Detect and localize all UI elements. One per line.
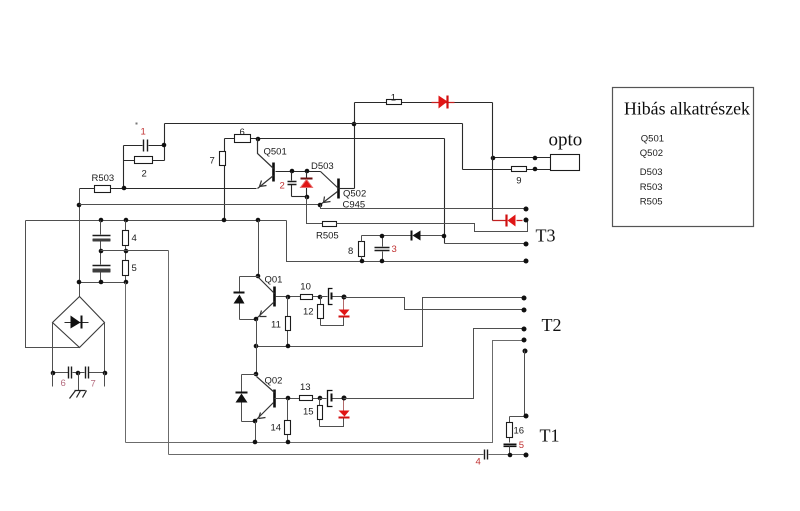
list R503 (640, 182, 663, 193)
parts list box (613, 88, 754, 227)
node dot T3 pin3 (524, 242, 529, 247)
node dot y205 (77, 203, 82, 208)
title Hibas alkatreszek (624, 99, 750, 119)
svg-text:16: 16 (514, 425, 525, 436)
node dot Q01 emitter (254, 317, 259, 322)
opto coupler box (551, 155, 580, 171)
labels 6 and 7 (pink) (61, 378, 96, 390)
capacitor 2 (288, 172, 297, 197)
svg-text:Q01: Q01 (265, 275, 283, 286)
wire y=282.3 bottom caps row (80, 282, 126, 284)
capacitor 1 (top-left) plates (124, 140, 165, 152)
svg-text:T3: T3 (536, 226, 556, 246)
svg-text:2: 2 (142, 169, 147, 180)
wire Q502 base to x354 (339, 188, 355, 190)
resistor 15 (318, 399, 323, 427)
label 12 (303, 307, 314, 318)
wire T2 pin4 via x=492.4 (126, 341, 525, 443)
wire x=462 down (462, 124, 464, 170)
node dot cap1 right (162, 143, 167, 148)
resistor 14 (285, 399, 291, 443)
wire Q02 base (275, 398, 300, 400)
wire y=250.9 to x=169 (101, 250, 169, 252)
resistor 8 (359, 236, 365, 262)
wire right leg x=164.2 (164, 124, 166, 161)
node dot R13/R15 (318, 396, 323, 401)
wire left frame x=25.4 (26, 221, 80, 348)
label 4 (red) (476, 457, 481, 468)
svg-text:4: 4 (132, 233, 137, 244)
diode Q01 clamp (234, 277, 259, 320)
capacitor C (Q01 output) (321, 289, 344, 305)
wire y=205 long horizontal (80, 204, 321, 206)
node dot diode/x444 (442, 234, 447, 239)
diode T3 (red, pointing left) (493, 215, 523, 227)
node dot D503 bottom (305, 195, 310, 200)
svg-text:D503: D503 (311, 161, 334, 172)
svg-text:opto: opto (549, 130, 583, 151)
svg-text:8: 8 (348, 246, 353, 257)
list Q502 (640, 148, 663, 159)
node dot Q02 collector (254, 372, 259, 377)
svg-text:Q501: Q501 (641, 134, 664, 145)
label 1 (resistor 1) (391, 92, 396, 103)
svg-text:6: 6 (61, 378, 66, 389)
node dot T2 pin4 (522, 338, 527, 343)
label 6 (240, 127, 245, 138)
diode Z1 (red, down) (339, 297, 350, 317)
wire bridge right leg (104, 323, 106, 373)
node dot base/R14 (286, 396, 291, 401)
capacitor 5 (T1) (504, 445, 517, 455)
ground (70, 373, 87, 399)
resistor 12 (318, 297, 324, 326)
svg-text:5: 5 (519, 440, 524, 451)
label 5 (132, 263, 137, 274)
node dot Q01 collector (256, 274, 261, 279)
label T3 (536, 226, 556, 246)
label T1 (540, 426, 560, 446)
wire y=235.7 (res8/cap3/diode rail) (362, 235, 444, 237)
wire Q01 base (276, 296, 301, 298)
resistor 9 (512, 167, 527, 172)
resistor 5 (123, 251, 129, 283)
node dot T3 pin4 (524, 259, 529, 264)
wire bridge left leg (52, 323, 54, 373)
node dots y=346 (254, 344, 291, 349)
svg-text:1: 1 (141, 126, 146, 137)
node dots caps 6/7 row (51, 371, 108, 376)
svg-text:Q501: Q501 (264, 147, 287, 158)
list R505 (640, 197, 663, 208)
node dot R10/R12 (318, 295, 323, 300)
label Q502 (343, 188, 366, 199)
label 2 (142, 169, 147, 180)
stubs below caps row (53, 373, 105, 387)
node dot T2 pin3 (522, 327, 527, 332)
svg-text:7: 7 (210, 156, 215, 167)
capacitor col (left) lower electrolytic (93, 251, 111, 283)
node dots y220 (99, 218, 261, 223)
label Q501 (264, 147, 287, 158)
svg-text:Hibás alkatrészek: Hibás alkatrészek (624, 99, 750, 119)
resistor 10 (301, 295, 321, 300)
bridge rectifier diamond (53, 297, 105, 348)
transistor Q01 (257, 278, 275, 319)
node dot T1 pin (524, 453, 529, 458)
node dot T3 pin2 (524, 218, 529, 223)
resistor 13 (300, 396, 320, 401)
node dot Q02 emitter (253, 419, 258, 424)
node dot cap right (342, 295, 347, 300)
wire left leg x=123.2 (123, 146, 125, 189)
wire Q01 emitter bottom (240, 319, 257, 321)
capacitor 6 (53, 367, 79, 379)
svg-text:11: 11 (271, 319, 281, 330)
wire R15 bottom to diode (320, 419, 344, 427)
label 10 (300, 281, 311, 292)
node dot R503/cap leg (122, 186, 127, 191)
wire resistor 7 column x=224 (224, 139, 226, 221)
bridge inner diode (65, 316, 89, 329)
label 16 (514, 425, 525, 436)
svg-text:14: 14 (271, 422, 282, 433)
node dot T2 pin5 (523, 349, 528, 354)
node dots mid caps row y=250.9 (99, 249, 129, 254)
svg-text:3: 3 (392, 244, 397, 255)
label 3 (red) (392, 244, 397, 255)
resistor R505 (323, 221, 528, 232)
capacitor col (left) upper electrolytic (93, 221, 111, 251)
wire to T2 pin2 (344, 298, 524, 310)
node dot base/cap2 (290, 169, 295, 174)
node dots y=442.4 (253, 440, 291, 445)
node dot T3 pin1 (524, 207, 529, 212)
wire x=125.6 long vertical (125, 283, 127, 443)
capacitor 4 (bottom) (485, 450, 488, 460)
label 8 (348, 246, 353, 257)
wire y=261.3 to T3 pin4 (287, 221, 527, 262)
svg-text:Q02: Q02 (265, 376, 283, 387)
svg-text:Q502: Q502 (343, 188, 366, 199)
wire x=444 down to T3 area (444, 139, 446, 244)
wire x=258.3 Q01 collector feed (258, 221, 260, 277)
svg-text:R503: R503 (640, 182, 663, 193)
transistor Q501 (258, 139, 274, 189)
transistor Q02 (256, 377, 275, 421)
label 1 (red, cap) (141, 126, 146, 137)
node dot Q501 collector feed (256, 137, 261, 142)
wire x=79.3 left vertical (79, 189, 81, 297)
svg-text:R505: R505 (640, 197, 663, 208)
wire R12 bottom to diode (321, 318, 344, 326)
resistor 7 (220, 152, 226, 166)
svg-text:1: 1 (391, 92, 396, 103)
svg-text:9: 9 (516, 176, 521, 187)
transistor Q502 (321, 172, 339, 205)
svg-text:13: 13 (300, 382, 311, 393)
wire y=346 to T2 pin1 (257, 298, 525, 347)
wire x=492.6 vertical (492, 103, 494, 221)
label Q01 (265, 275, 283, 286)
wire y=220 horizontal (26, 220, 287, 222)
wire to T2 pin3 (344, 329, 525, 399)
label 9 (516, 176, 521, 187)
node dot T2 pin2 (522, 308, 527, 313)
wire vertical x=354 (rail to Q502 base) (354, 103, 356, 189)
speck (136, 123, 138, 125)
wire Q01 emitter down to Q02 (256, 320, 258, 375)
svg-text:6: 6 (240, 127, 245, 138)
resistor 1 (387, 100, 402, 105)
wire cap2 bottom to D503 bottom (292, 196, 307, 198)
svg-text:2: 2 (280, 181, 285, 192)
svg-text:12: 12 (303, 307, 314, 318)
diode Q02 clamp (236, 375, 257, 422)
svg-text:D503: D503 (640, 167, 663, 178)
svg-text:T2: T2 (542, 315, 562, 335)
resistor 2 (124, 157, 165, 164)
node dot T2 pin1 (522, 296, 527, 301)
diode D top (red) (432, 96, 455, 109)
label C945 (343, 200, 366, 211)
wire y=454.6 bottom rail (169, 454, 527, 456)
diode D503 (red) (301, 172, 313, 197)
label 2 (red) (280, 181, 285, 192)
capacitor 3 (375, 236, 390, 262)
svg-text:R503: R503 (92, 173, 115, 184)
node dots opto wires (491, 156, 538, 172)
resistor 6 (235, 135, 251, 143)
wire y=157.5 to opto (493, 157, 551, 159)
resistor 11 (286, 297, 291, 347)
node dots y=282.3 (77, 280, 129, 285)
wire emitter jog to T3 pin1 (321, 205, 527, 209)
label D503 (311, 161, 334, 172)
label 15 (303, 406, 314, 417)
svg-text:5: 5 (132, 263, 137, 274)
node dot base/R11 (286, 295, 291, 300)
wire T2 pin5 down to R16 (510, 351, 526, 417)
label 13 (300, 382, 311, 393)
label 5 (red) (519, 440, 524, 451)
svg-text:10: 10 (300, 281, 311, 292)
svg-text:15: 15 (303, 406, 314, 417)
list Q501 (641, 134, 664, 145)
label 11 (271, 319, 281, 330)
wire Q501 base y=171.2 (276, 171, 321, 173)
wire top rail y=102 (355, 102, 493, 104)
node dot cap3 top (380, 234, 385, 239)
capacitor 7 (79, 367, 105, 379)
wire y=124 horizontal (165, 123, 463, 125)
label T2 (542, 315, 562, 335)
label 14 (271, 422, 282, 433)
resistor R503 (80, 186, 257, 193)
capacitor C (Q02 output) (320, 391, 344, 407)
label 4 (132, 233, 137, 244)
label R505 (316, 231, 339, 242)
svg-text:Q502: Q502 (640, 148, 663, 159)
label opto (549, 130, 583, 151)
svg-text:7: 7 (91, 378, 96, 389)
label 7 (210, 156, 215, 167)
wire y=138.7 (resistor 6 rail) (225, 138, 445, 140)
wire x=169 long vertical (168, 251, 170, 455)
wire to T3 pin3 (445, 243, 527, 245)
wire Q02 emitter bottom (242, 421, 256, 423)
svg-text:T1: T1 (540, 426, 560, 446)
wire Q02 emitter down (255, 422, 257, 443)
node dot R16 corner (524, 414, 529, 419)
label R503 (92, 173, 115, 184)
diode D (black, pointing left) (412, 231, 421, 241)
diode Z2 (red, down) (339, 399, 350, 418)
list D503 (640, 167, 663, 178)
node dot Q502 emitter (318, 203, 323, 208)
node dot cap5 junction (508, 453, 513, 458)
wire y=169.3 to resistor 9 and opto (463, 169, 551, 171)
node dots on y=261.3 (360, 259, 385, 264)
svg-text:4: 4 (476, 457, 481, 468)
label Q02 (265, 376, 283, 387)
resistor 16 (507, 417, 513, 443)
node dot cap right (Q02) (342, 396, 347, 401)
svg-text:R505: R505 (316, 231, 339, 242)
wire D503 bottom to R505 (307, 197, 323, 224)
node dot x354 y124 (352, 122, 357, 127)
node dot D503 top (305, 169, 310, 174)
resistor 4 (123, 221, 129, 251)
